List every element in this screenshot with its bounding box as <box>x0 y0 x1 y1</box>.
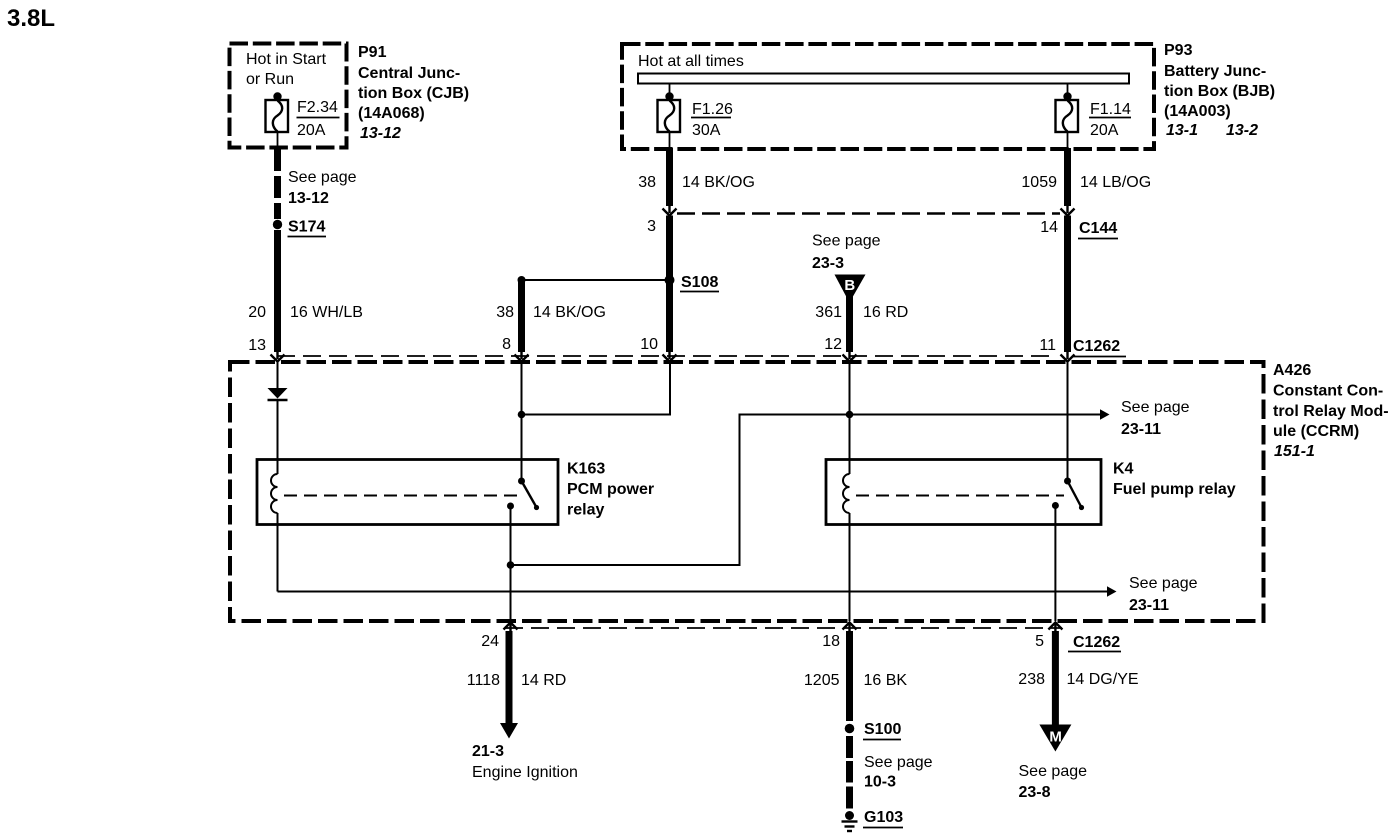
svg-text:14 DG/YE: 14 DG/YE <box>1067 671 1139 688</box>
junction pin8/pin10 link <box>518 411 526 419</box>
wire: pin 8 down to K163 switch <box>521 362 523 481</box>
svg-text:13-2: 13-2 <box>1226 122 1258 139</box>
svg-text:S174: S174 <box>288 219 325 236</box>
svg-text:Central Junc-: Central Junc- <box>358 65 460 82</box>
wire: B down to CCRM pin 12 (circuit 361) <box>846 296 853 352</box>
svg-text:See page: See page <box>1129 575 1198 592</box>
svg-text:(14A003): (14A003) <box>1164 103 1231 120</box>
svg-text:14 LB/OG: 14 LB/OG <box>1080 174 1151 191</box>
arrow into CCRM pin 13 <box>271 350 285 362</box>
svg-text:38: 38 <box>638 174 656 191</box>
svg-text:C144: C144 <box>1079 220 1117 237</box>
svg-text:See page: See page <box>812 233 881 250</box>
wire: K4 switch output down to pin 5 <box>1054 506 1056 622</box>
bus bar <box>638 74 1129 84</box>
svg-text:(14A068): (14A068) <box>358 105 425 122</box>
svg-text:B: B <box>844 277 855 294</box>
K4 coil <box>843 474 850 513</box>
wire: K163 switch output down to pin 24 <box>510 506 512 621</box>
arrow at boundary (wire 38) <box>663 205 677 216</box>
svg-text:A426: A426 <box>1273 362 1311 379</box>
svg-text:11: 11 <box>1039 337 1056 354</box>
splice S108 <box>665 275 675 285</box>
svg-text:14 BK/OG: 14 BK/OG <box>533 304 606 321</box>
K4 actuation dashed line <box>856 495 1064 497</box>
svg-text:F2.34: F2.34 <box>297 99 338 116</box>
svg-text:K4: K4 <box>1113 461 1134 478</box>
P91 Central Junction Box (dashed box) <box>230 44 347 148</box>
splice S174 <box>273 220 282 229</box>
wire: S100 to G103 (dashed, off page) <box>846 736 853 809</box>
relay K163 box <box>257 460 558 525</box>
dashed boundary line (connector C144) <box>677 212 1060 215</box>
svg-text:23-11: 23-11 <box>1121 421 1161 438</box>
svg-text:P91: P91 <box>358 44 387 61</box>
svg-text:30A: 30A <box>692 122 721 139</box>
svg-text:14 BK/OG: 14 BK/OG <box>682 174 755 191</box>
connector triangle M <box>1039 725 1071 752</box>
svg-text:21-3: 21-3 <box>472 743 504 760</box>
K163 switch <box>518 478 525 485</box>
thin dashed connector line (top, C1262) <box>277 355 1056 357</box>
P93 Battery Junction Box (dashed box) <box>622 44 1154 149</box>
svg-text:Engine Ignition: Engine Ignition <box>472 764 578 781</box>
K163 actuation dashed line <box>284 495 521 497</box>
svg-text:relay: relay <box>567 502 604 519</box>
svg-text:18: 18 <box>822 633 840 650</box>
svg-text:S108: S108 <box>681 274 718 291</box>
wire: pin 24 down (circuit 1118) <box>506 631 513 724</box>
wire: circuit 3 from boundary down through S108 to CCRM pin 10 <box>666 216 673 353</box>
svg-text:Hot in Start: Hot in Start <box>246 51 327 68</box>
svg-text:P93: P93 <box>1164 42 1193 59</box>
svg-text:ule (CCRM): ule (CCRM) <box>1273 423 1359 440</box>
wire: C144 down to CCRM pin 11 <box>1064 216 1071 353</box>
thin dashed connector line (bottom) <box>505 627 1062 629</box>
svg-text:16 WH/LB: 16 WH/LB <box>290 304 363 321</box>
wire: K163 coil down, out of CCRM bottom-left run <box>277 513 279 592</box>
svg-text:Constant Con-: Constant Con- <box>1273 383 1383 400</box>
arrow into CCRM pin 12 <box>843 350 857 362</box>
svg-text:20A: 20A <box>297 122 326 139</box>
wire: pin 5 down (circuit 238) <box>1052 631 1059 726</box>
svg-text:See page: See page <box>1019 763 1088 780</box>
svg-text:14: 14 <box>1040 219 1058 236</box>
svg-text:13-12: 13-12 <box>360 125 401 142</box>
K163 coil <box>271 474 277 513</box>
svg-text:F1.26: F1.26 <box>692 101 733 118</box>
wire: K4 coil down to pin 18 <box>849 513 851 621</box>
wire: pin 13 to diode <box>277 362 279 388</box>
svg-text:C1262: C1262 <box>1073 338 1120 355</box>
svg-text:23-8: 23-8 <box>1019 784 1051 801</box>
svg-text:361: 361 <box>815 304 842 321</box>
wire: pin 18 down (circuit 1205) <box>846 631 853 721</box>
svg-text:38: 38 <box>496 304 514 321</box>
wire: K163 output to K4 coil and see page 23-11 (top arrow) <box>511 415 1101 566</box>
junction at K4 coil feed <box>846 411 854 419</box>
connector triangle B <box>835 275 866 300</box>
svg-text:or Run: or Run <box>246 71 294 88</box>
svg-text:trol Relay Mod-: trol Relay Mod- <box>1273 403 1389 420</box>
wire: F1.14 down to C144 (circuit 1059) <box>1064 148 1071 206</box>
arrow out of CCRM pin 18 <box>843 623 857 633</box>
svg-text:13-12: 13-12 <box>288 190 329 207</box>
svg-text:S100: S100 <box>864 721 901 738</box>
svg-text:16 BK: 16 BK <box>864 672 908 689</box>
svg-text:24: 24 <box>481 633 499 650</box>
svg-text:16 RD: 16 RD <box>863 304 908 321</box>
wire: branch from S108 to CCRM pin 8 <box>522 279 670 281</box>
svg-text:23-3: 23-3 <box>812 255 844 272</box>
wire: pin 11 down to K4 switch <box>1067 362 1069 481</box>
svg-text:G103: G103 <box>864 809 903 826</box>
svg-text:5: 5 <box>1035 633 1044 650</box>
svg-text:K163: K163 <box>567 461 605 478</box>
svg-text:3.8L: 3.8L <box>7 5 55 32</box>
wire: F1.26 down to C144 boundary <box>666 148 673 206</box>
arrow at C144 <box>1061 205 1075 216</box>
svg-text:1059: 1059 <box>1021 174 1057 191</box>
svg-text:PCM power: PCM power <box>567 481 654 498</box>
svg-text:23-11: 23-11 <box>1129 597 1169 614</box>
svg-text:tion Box (BJB): tion Box (BJB) <box>1164 83 1275 100</box>
fuse F2.34 20A <box>266 92 289 146</box>
svg-text:F1.14: F1.14 <box>1090 101 1131 118</box>
svg-text:See page: See page <box>1121 399 1190 416</box>
ground G103 <box>845 811 854 820</box>
svg-text:Fuel pump relay: Fuel pump relay <box>1113 481 1236 498</box>
arrow out of CCRM pin 24 <box>504 623 518 633</box>
svg-text:See page: See page <box>864 754 933 771</box>
svg-text:151-1: 151-1 <box>1274 443 1315 460</box>
svg-text:1205: 1205 <box>804 672 840 689</box>
wire: K163 coil return to see page 23-11 (bottom arrow) <box>278 591 1108 593</box>
svg-text:20: 20 <box>248 304 266 321</box>
svg-text:1118: 1118 <box>467 672 500 689</box>
wire: P91 fuse F2.34 down to splice S174 (partly dashed, off-page) <box>274 146 281 219</box>
arrow into CCRM pin 11 <box>1061 350 1075 362</box>
fuse F1.14 20A <box>1056 84 1079 149</box>
svg-text:8: 8 <box>502 336 511 353</box>
wire: pin 12 down to K4 coil <box>849 362 851 474</box>
svg-text:3: 3 <box>647 218 656 235</box>
svg-text:M: M <box>1049 729 1062 746</box>
diode <box>268 388 288 399</box>
fuse F1.26 30A <box>658 84 681 149</box>
svg-text:12: 12 <box>824 336 842 353</box>
splice S100 <box>845 724 855 734</box>
svg-text:13-1: 13-1 <box>1166 122 1198 139</box>
svg-text:10: 10 <box>640 336 658 353</box>
svg-text:See page: See page <box>288 169 357 186</box>
svg-text:Hot at all times: Hot at all times <box>638 53 744 70</box>
svg-text:14 RD: 14 RD <box>521 672 566 689</box>
A426 CCRM module (dashed box) <box>230 362 1264 621</box>
arrow into CCRM pin 8 <box>515 350 529 362</box>
K4 switch <box>1064 478 1071 485</box>
svg-text:C1262: C1262 <box>1073 634 1120 651</box>
arrowhead to 21-3 <box>500 723 518 739</box>
svg-text:238: 238 <box>1018 671 1045 688</box>
wire: S174 down to CCRM pin 13 <box>274 230 281 352</box>
svg-text:20A: 20A <box>1090 122 1119 139</box>
arrow into CCRM pin 10 <box>663 350 677 362</box>
svg-text:Battery Junc-: Battery Junc- <box>1164 63 1266 80</box>
svg-text:10-3: 10-3 <box>864 774 896 791</box>
relay K4 box <box>826 460 1101 525</box>
svg-text:13: 13 <box>248 337 266 354</box>
arrow out of CCRM pin 5 <box>1048 623 1062 633</box>
svg-text:tion Box (CJB): tion Box (CJB) <box>358 85 469 102</box>
junction to see-page line <box>507 561 515 569</box>
wire: diode to K163 coil <box>277 400 279 475</box>
